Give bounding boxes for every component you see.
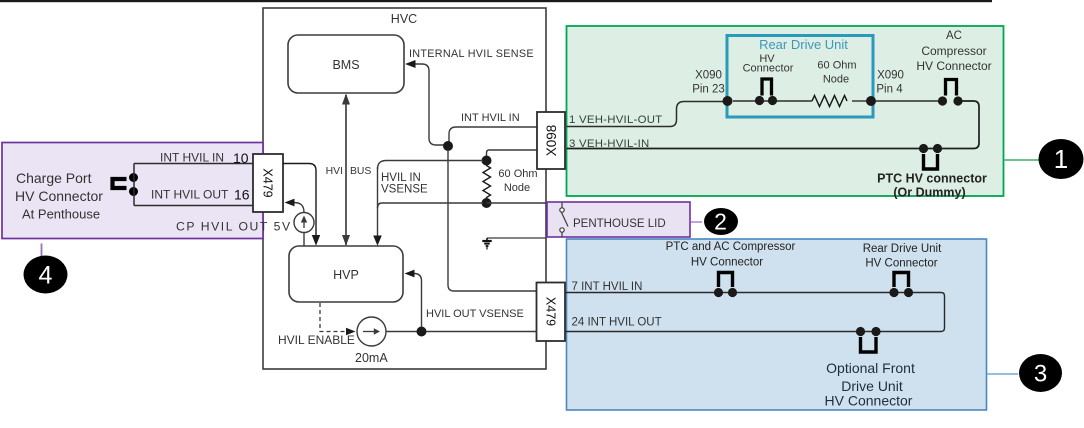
svg-text:HVIL IN: HVIL IN	[381, 172, 421, 184]
rear drive unit box	[727, 36, 873, 118]
svg-text:1: 1	[1054, 144, 1068, 174]
current source CP HVIL OUT	[294, 213, 314, 233]
blue box: front HV loop (callout 3 region)	[567, 239, 987, 410]
svg-text:X090: X090	[695, 70, 722, 82]
charge port connector symbol	[113, 179, 127, 188]
wire INT HVIL IN 10	[134, 163, 253, 165]
charge port box	[2, 143, 263, 239]
wire RDU loop	[733, 100, 812, 102]
green box: vehicle HV loop (callout 1 region)	[567, 26, 1004, 196]
HVIL IN VSENSE wire (top branch)	[378, 161, 484, 170]
wire INT HVIL OUT 16	[134, 205, 253, 207]
svg-text:X090: X090	[877, 70, 904, 82]
svg-text:X098: X098	[544, 125, 559, 157]
penthouse lid box	[547, 202, 690, 237]
svg-text:BMS: BMS	[332, 58, 359, 72]
HVIL IN VSENSE wire (bottom branch)	[378, 203, 484, 208]
svg-text:7 INT HVIL IN: 7 INT HVIL IN	[572, 281, 643, 293]
svg-text:1 VEH-HVIL-OUT: 1 VEH-HVIL-OUT	[569, 114, 662, 126]
svg-text:Optional Front: Optional Front	[826, 360, 915, 376]
svg-text:INT HVIL IN: INT HVIL IN	[160, 151, 224, 165]
node: INT HVIL IN junction	[443, 141, 453, 151]
svg-text:10: 10	[233, 150, 249, 166]
leader to callout 4	[41, 244, 43, 257]
connector X479 (HVC right)	[537, 283, 566, 342]
svg-text:(Or Dummy): (Or Dummy)	[893, 186, 965, 200]
wire junction down to X479 out pin	[448, 150, 537, 291]
svg-text:HV Connector: HV Connector	[825, 393, 913, 409]
leader to callout 1	[1004, 159, 1040, 161]
svg-text:3 VEH-HVIL-IN: 3 VEH-HVIL-IN	[569, 138, 649, 150]
callout 3	[1019, 354, 1062, 392]
HVP box	[289, 246, 403, 302]
60 Ohm node resistor (HVC)	[482, 156, 492, 166]
wire 60 Ohm node to penthouse lid	[487, 202, 548, 204]
svg-text:Charge Port: Charge Port	[16, 170, 92, 186]
svg-text:3: 3	[1034, 361, 1047, 388]
svg-text:INT HVIL IN: INT HVIL IN	[461, 112, 520, 124]
PTC and AC Compressor HV connector (blue box)	[719, 273, 733, 288]
node X090 pin 4	[866, 96, 876, 106]
wire resistor to X090 pin 4	[852, 100, 868, 102]
wire current source to HVP	[303, 233, 305, 247]
svg-text:Compressor: Compressor	[921, 44, 986, 58]
BMS box	[288, 35, 404, 93]
wire X479 pin 10 to HVP	[283, 164, 316, 236]
wire X098 pin 2 to 60 Ohm node	[487, 150, 538, 158]
node X090 pin 23	[723, 96, 733, 106]
wire X090 pin 4 to AC connector	[876, 100, 940, 102]
connector X479 (HVC left)	[253, 154, 283, 212]
penthouse lid switch	[560, 203, 568, 238]
callout 4	[24, 256, 68, 294]
HVIL IN VSENSE wire (vertical into HVP)	[377, 167, 379, 236]
svg-text:HV Connector: HV Connector	[865, 258, 937, 270]
wire 20mA source to X479	[386, 331, 537, 333]
svg-text:HVIL ENABLE: HVIL ENABLE	[278, 333, 355, 347]
svg-text:60 Ohm: 60 Ohm	[498, 168, 537, 180]
svg-text:Node: Node	[823, 74, 849, 86]
svg-text:PTC and AC Compressor: PTC and AC Compressor	[666, 241, 796, 253]
svg-text:VSENSE: VSENSE	[381, 184, 428, 196]
svg-text:HV Connector: HV Connector	[15, 188, 103, 204]
svg-text:Pin 4: Pin 4	[876, 84, 903, 96]
svg-text:60 Ohm: 60 Ohm	[817, 60, 856, 72]
wire current source to X479 (arrow)	[293, 203, 304, 213]
svg-text:PENTHOUSE LID: PENTHOUSE LID	[573, 218, 666, 230]
svg-text:BUS: BUS	[350, 166, 371, 177]
AC compressor HV connector	[946, 80, 957, 96]
HVIL OUT VSENSE wire	[412, 274, 422, 328]
svg-text:2: 2	[714, 209, 727, 235]
svg-text:AC: AC	[946, 30, 962, 42]
svg-text:PTC HV connector: PTC HV connector	[877, 172, 987, 186]
svg-text:20mA: 20mA	[355, 351, 388, 365]
ground wire	[487, 237, 546, 239]
current source 20mA	[357, 317, 386, 346]
svg-text:CP HVIL OUT 5V: CP HVIL OUT 5V	[176, 220, 292, 234]
RDU HV connector	[762, 79, 772, 96]
callout 1	[1039, 139, 1084, 179]
svg-text:INTERNAL HVIL SENSE: INTERNAL HVIL SENSE	[409, 48, 534, 60]
svg-text:Connector: Connector	[743, 63, 794, 75]
svg-text:HVI: HVI	[326, 166, 343, 177]
svg-text:X479: X479	[261, 168, 275, 197]
svg-text:INT HVIL OUT: INT HVIL OUT	[151, 188, 229, 202]
svg-text:16: 16	[234, 187, 250, 203]
INT HVIL IN wire (X098 to junction)	[449, 127, 537, 143]
ground	[482, 238, 491, 250]
svg-text:HVC: HVC	[391, 12, 417, 26]
leader to callout 3	[987, 373, 1018, 375]
svg-text:X479: X479	[544, 297, 558, 326]
wire 3 VEH-HVIL-IN (right loop)	[567, 101, 980, 149]
leader to callout 2	[691, 221, 702, 223]
node: HVIL OUT VSENSE junction	[417, 327, 427, 337]
INTERNAL HVIL SENSE wire	[413, 64, 444, 145]
connector X098	[537, 112, 565, 169]
svg-text:HV Connector: HV Connector	[691, 257, 763, 269]
svg-text:Node: Node	[504, 182, 530, 194]
PTC HV connector	[919, 144, 928, 153]
svg-text:24 INT HVIL OUT: 24 INT HVIL OUT	[572, 317, 662, 329]
svg-text:Rear Drive Unit: Rear Drive Unit	[759, 37, 848, 52]
HVI BUS wire	[345, 95, 347, 245]
svg-text:HVP: HVP	[333, 268, 359, 282]
HVC enclosure box	[263, 8, 546, 369]
svg-text:At Penthouse: At Penthouse	[22, 207, 100, 222]
charge port loop wire vertical	[133, 164, 135, 206]
svg-text:Rear Drive Unit: Rear Drive Unit	[863, 243, 942, 255]
svg-text:HV Connector: HV Connector	[916, 59, 991, 73]
60 Ohm node resistor (RDU)	[812, 96, 847, 107]
wire 1 VEH-HVIL-OUT	[567, 102, 727, 127]
svg-text:HVIL OUT VSENSE: HVIL OUT VSENSE	[426, 308, 524, 320]
Rear Drive Unit HV connector (blue box)	[894, 273, 909, 288]
Optional Front Drive Unit HV connector	[856, 327, 865, 336]
svg-text:Pin 23: Pin 23	[692, 84, 725, 96]
svg-text:4: 4	[39, 262, 53, 290]
HVIL ENABLE dashed wire	[320, 303, 346, 332]
top rule line	[0, 0, 992, 2]
callout 2	[704, 208, 738, 235]
wire 7 INT HVIL IN / 24 INT HVIL OUT loop	[565, 293, 945, 332]
